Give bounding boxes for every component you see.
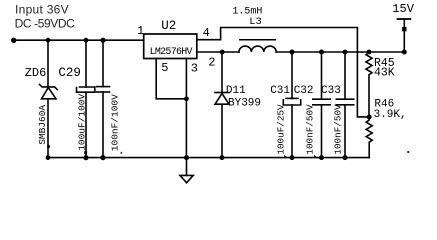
wire output rail — [197, 51, 404, 53]
node pin2 junction — [220, 50, 225, 55]
node C32 bottom junction — [319, 155, 324, 160]
svg-text:3: 3 — [191, 61, 198, 75]
svg-text:C33: C33 — [321, 85, 341, 97]
svg-text:100nF/50V: 100nF/50V — [305, 104, 316, 155]
wire ZD6 top lead — [47, 40, 49, 87]
node cap2 top junction — [100, 38, 105, 43]
svg-text:C32: C32 — [294, 85, 314, 97]
svg-text:5: 5 — [161, 61, 168, 75]
svg-text:ZD6: ZD6 — [25, 66, 47, 80]
node C33 top junction — [343, 50, 348, 55]
polarity square on ZD6 lead — [47, 145, 50, 148]
node pin5-pin3 junction — [184, 96, 189, 101]
wire pin5 to pin3 link — [156, 59, 186, 99]
stray mark dot — [407, 151, 409, 153]
polarity square on C29 lead — [84, 151, 87, 154]
svg-text:100uF/25V: 100uF/25V — [275, 104, 286, 155]
capacitor C31 — [283, 52, 300, 158]
node D11 bottom junction — [220, 155, 225, 160]
svg-text:L3: L3 — [249, 16, 262, 28]
wire feedback pin4 to divider tap — [197, 28, 369, 117]
svg-text:U2: U2 — [161, 19, 176, 33]
wire ground rail bottom — [48, 157, 369, 159]
wire input rail top — [13, 39, 144, 41]
node divider tap junction — [367, 115, 372, 120]
capacitor 100nF/100V — [97, 40, 110, 157]
node C29 top junction — [84, 38, 89, 43]
zener diode ZD6 — [40, 84, 58, 157]
resistor R46 — [366, 117, 372, 158]
svg-text:100nF/100V: 100nF/100V — [109, 94, 120, 151]
annotation Input 36V DC-59VDC — [15, 2, 76, 30]
node cap2 bottom junction — [100, 155, 105, 160]
node ZD6 top junction — [46, 38, 51, 43]
node ground junction — [184, 155, 189, 160]
svg-text:D11: D11 — [226, 85, 246, 97]
node C29 bottom junction — [83, 155, 88, 160]
svg-text:43K: 43K — [374, 67, 395, 80]
svg-text:100nF/50V: 100nF/50V — [332, 104, 343, 155]
wire pin3 to ground rail — [185, 59, 187, 158]
svg-text:2: 2 — [208, 56, 215, 70]
node input terminal — [11, 38, 16, 43]
tick mark left of C32 bottom — [314, 155, 317, 158]
regulator IC U2 LM2576HV box — [144, 34, 197, 59]
svg-text:15V: 15V — [392, 2, 414, 16]
diode D11 BY399 — [215, 52, 229, 158]
svg-text:LM2576HV: LM2576HV — [150, 47, 193, 58]
svg-text:100uF/100V: 100uF/100V — [77, 93, 88, 150]
svg-text:3.9K,: 3.9K, — [374, 109, 407, 121]
svg-text:C31: C31 — [270, 85, 290, 97]
svg-text:Input 36V: Input 36V — [15, 2, 69, 16]
comma mark right of cap2 label — [121, 152, 123, 155]
svg-text:DC -59VDC: DC -59VDC — [15, 17, 76, 31]
node C31 top junction — [290, 50, 295, 55]
resistor R45 — [366, 52, 372, 117]
node C32 top junction — [319, 50, 324, 55]
node 15V junction — [402, 50, 407, 55]
node R45 top junction — [367, 50, 372, 55]
node 15V terminal square marker — [402, 27, 406, 31]
node C31 bottom junction — [290, 155, 295, 160]
node C33 bottom junction — [343, 155, 348, 160]
capacitor C33 — [336, 52, 353, 158]
tick mark left of C31 bottom — [284, 155, 287, 158]
svg-text:4: 4 — [203, 26, 210, 40]
ground — [180, 158, 193, 183]
svg-text:C29: C29 — [58, 66, 81, 80]
capacitor C32 — [313, 52, 330, 158]
node ZD6 bottom junction — [46, 155, 51, 160]
node 15V terminal — [398, 19, 411, 52]
svg-text:SMBJ60A: SMBJ60A — [37, 105, 48, 145]
svg-text:BY399: BY399 — [228, 97, 261, 109]
svg-text:1: 1 — [137, 24, 144, 38]
inductor L3 — [239, 40, 276, 52]
capacitor C29 — [77, 40, 95, 157]
